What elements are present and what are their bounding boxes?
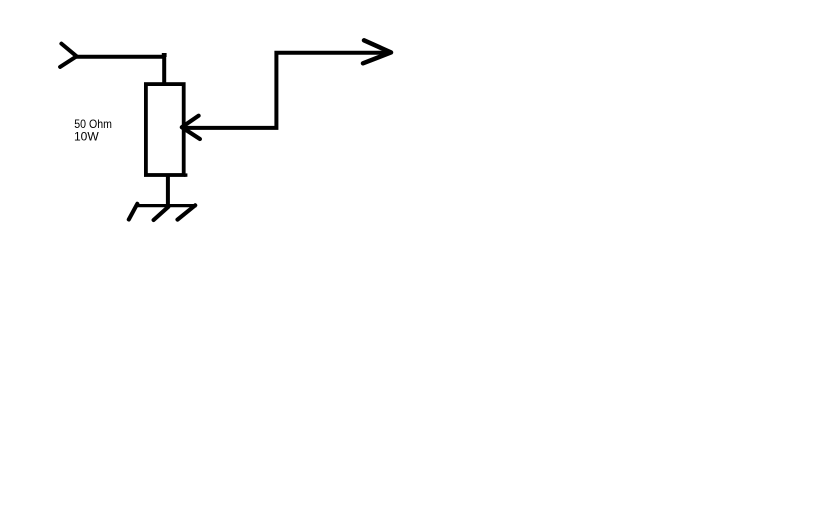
input terminal chevron xyxy=(60,44,77,67)
node nub at R1 bottom right xyxy=(184,173,187,176)
ground hatch left xyxy=(129,204,138,220)
wire input to R1 top xyxy=(75,57,164,84)
ground hatch middle xyxy=(154,207,169,220)
ground hatch right xyxy=(178,205,196,219)
wire R1 bottom to ground xyxy=(166,175,170,207)
potentiometer R1 body xyxy=(146,84,184,175)
ground bar xyxy=(137,204,197,207)
output arrowhead xyxy=(363,40,391,63)
node junction nub at wire corner xyxy=(162,53,167,57)
svg-text:10W: 10W xyxy=(74,130,99,144)
wiper arrowhead on R1 xyxy=(182,116,200,139)
wiper wire to output xyxy=(182,53,390,128)
